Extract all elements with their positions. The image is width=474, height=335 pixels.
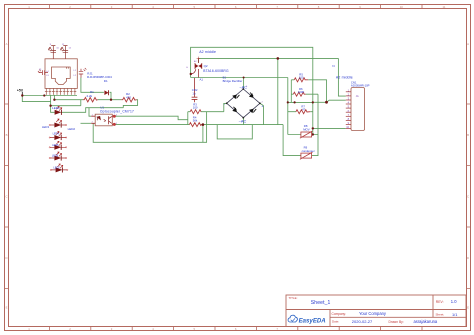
svg-text:2.2k: 2.2k	[87, 94, 93, 98]
svg-text:LED7: LED7	[53, 167, 60, 170]
svg-text:Sheet:: Sheet:	[436, 313, 445, 317]
wire opto pin2 stub	[81, 122, 92, 124]
wire R3 row	[188, 103, 227, 111]
wire R4 junction drop	[202, 125, 204, 143]
diode top-right	[249, 93, 254, 98]
resistor R1	[83, 90, 98, 102]
wire box A	[93, 112, 206, 142]
wire D1 branch	[81, 78, 104, 93]
svg-text:100: 100	[193, 106, 198, 110]
RJ45 top LED a	[48, 46, 56, 59]
connector CN1	[346, 80, 370, 130]
svg-text:B: B	[467, 133, 469, 137]
resistor R7	[296, 105, 310, 114]
svg-text:Bridge Rectifier: Bridge Rectifier	[223, 79, 243, 83]
svg-text:Drawn By:: Drawn By:	[389, 320, 404, 324]
svg-text:condenser: condenser	[302, 149, 315, 153]
wire bridge top drop	[243, 78, 245, 89]
wire A1 row	[191, 78, 288, 135]
wire mid vertical	[277, 58, 279, 124]
svg-text:LED4: LED4	[53, 133, 60, 136]
resistor R4	[189, 115, 201, 126]
svg-text:1/1: 1/1	[452, 312, 457, 317]
LED LED3	[42, 119, 75, 131]
RJ45 pin numbers	[39, 44, 77, 77]
svg-text:Q2: Q2	[204, 64, 208, 68]
wire R5 row	[291, 80, 326, 103]
capacitor CR2	[192, 78, 198, 102]
svg-text:C: C	[467, 195, 469, 199]
wire box B	[217, 125, 252, 139]
svg-text:A1: A1	[200, 78, 204, 82]
LED LED4	[49, 132, 67, 141]
wire R8 row	[288, 134, 318, 136]
RJ45 left LED	[38, 70, 48, 75]
wire top box	[191, 47, 313, 134]
svg-text:JA: JA	[356, 95, 359, 98]
svg-text:47: 47	[302, 108, 306, 112]
wire RJ45 pin drop B	[53, 95, 55, 100]
svg-text:A2 middle: A2 middle	[336, 76, 353, 80]
RJ45 top LED b	[61, 46, 69, 59]
+5V power flag	[17, 89, 24, 96]
wire LED1 anode	[51, 106, 55, 113]
LED LED5	[49, 141, 67, 150]
diode bottom-left	[232, 108, 237, 113]
wire R7 row	[288, 111, 313, 113]
wire R5 R6 left vertical	[290, 80, 292, 103]
svg-text:A: A	[6, 42, 8, 46]
svg-text:LED1: LED1	[52, 106, 60, 110]
svg-text:E: E	[467, 306, 469, 310]
svg-text:D1: D1	[104, 79, 108, 83]
resistor R6	[293, 87, 305, 96]
svg-text:A2 middle: A2 middle	[199, 50, 216, 54]
wire RJ45 pin drop A	[50, 95, 52, 106]
svg-text:~AC: ~AC	[239, 119, 247, 124]
svg-text:asrajakaruna: asrajakaruna	[414, 319, 438, 324]
wire LED1 cathode to opto	[61, 108, 123, 113]
triac Q2	[186, 57, 229, 82]
wire to R9	[283, 94, 318, 155]
svg-text:10: 10	[400, 5, 404, 9]
wire R1 row	[54, 99, 83, 101]
svg-text:470: 470	[126, 96, 131, 100]
svg-text:LED5: LED5	[52, 144, 59, 147]
wires	[22, 47, 346, 155]
svg-text:LED2: LED2	[68, 127, 76, 131]
svg-text:100: 100	[299, 76, 304, 80]
svg-text:BTA16-600BRG: BTA16-600BRG	[203, 69, 229, 73]
wire N drop	[338, 58, 345, 96]
svg-text:+5V: +5V	[17, 89, 24, 93]
wire pin3 row	[313, 100, 346, 102]
svg-text:+: +	[261, 104, 263, 108]
varistor R9 condenser	[300, 146, 315, 160]
diode bottom-right	[249, 109, 254, 114]
svg-text:N: N	[332, 64, 334, 68]
wire +5V rail	[22, 95, 77, 97]
svg-text:LED6: LED6	[52, 155, 59, 158]
diode top-left	[232, 95, 237, 100]
wire A2 row	[198, 58, 338, 62]
varistor R8	[300, 124, 313, 138]
svg-text:B: B	[6, 133, 8, 137]
svg-text:Date:: Date:	[332, 320, 339, 324]
svg-text:REV:: REV:	[436, 300, 444, 304]
svg-text:Your Company: Your Company	[359, 311, 387, 316]
title block	[286, 295, 466, 327]
wire bridge plus drop	[260, 103, 264, 124]
svg-text:A: A	[467, 42, 469, 46]
svg-text:1.0: 1.0	[451, 299, 457, 304]
RJ45 bottom pins	[45, 88, 76, 95]
LED LED6	[49, 152, 67, 161]
svg-text:1u: 1u	[192, 92, 196, 96]
wire y102 link	[288, 101, 313, 103]
LED LED7	[50, 164, 68, 173]
svg-text:Company:: Company:	[332, 312, 347, 316]
svg-text:D: D	[467, 256, 469, 260]
svg-text:MOV: MOV	[303, 127, 310, 131]
RJ45 connector RJ1	[45, 59, 77, 89]
wire opto emitter / R4 row	[114, 124, 283, 126]
RJ45 right LED	[79, 68, 87, 78]
junction dots	[21, 57, 328, 136]
svg-text:Optocoupler_CM717: Optocoupler_CM717	[100, 110, 134, 114]
wire +5V lower branch	[22, 96, 50, 102]
svg-text:A2005WR-10P: A2005WR-10P	[351, 84, 370, 88]
LED LED1	[52, 106, 62, 115]
svg-text:R-RJ45R08P-C004: R-RJ45R08P-C004	[87, 75, 112, 79]
svg-text:LED3: LED3	[42, 125, 49, 129]
optocoupler U1	[91, 105, 134, 126]
svg-text:C: C	[5, 195, 7, 199]
wire opto pin1 drop	[89, 108, 91, 117]
svg-text:G: G	[186, 67, 188, 69]
EasyEDA logo	[288, 315, 326, 324]
resistor R2	[121, 92, 136, 102]
svg-text:100K: 100K	[298, 90, 305, 94]
svg-text:Sheet_1: Sheet_1	[311, 300, 331, 306]
svg-text:56k: 56k	[193, 119, 198, 123]
resistor R5	[294, 73, 308, 82]
svg-text:D: D	[5, 256, 7, 260]
wire pin10 row	[313, 127, 346, 129]
svg-text:E: E	[6, 306, 8, 310]
svg-text:TITLE:: TITLE:	[289, 296, 298, 300]
diode D1	[104, 79, 109, 95]
svg-text:11: 11	[443, 5, 446, 9]
resistor R3	[190, 102, 201, 113]
bridge rectifier B1	[223, 75, 264, 123]
svg-text:2020-02-27: 2020-02-27	[352, 319, 373, 324]
wire opto collector	[114, 116, 188, 120]
wire R3 R4 left vertical	[187, 112, 189, 125]
wire R6 row	[291, 93, 318, 95]
wire LED feed row	[51, 100, 81, 106]
wire bridge bottom drop	[243, 118, 245, 125]
svg-text:EasyEDA: EasyEDA	[299, 317, 326, 324]
